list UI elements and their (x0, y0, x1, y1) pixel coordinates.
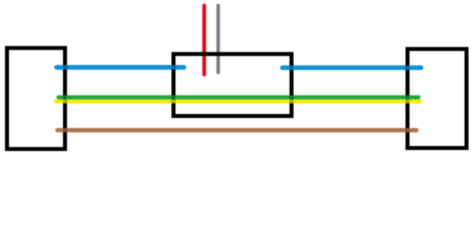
middle junction box (174, 54, 292, 116)
wire blue right segment (283, 65, 422, 70)
wire yellow (earth) (56, 99, 420, 103)
wire gray vertical (216, 6, 220, 73)
wire blue left segment (57, 65, 185, 70)
right connector box (408, 49, 467, 148)
left connector box (7, 48, 65, 149)
wire green (earth) (59, 95, 419, 99)
box outline blend overlay (wire crossing darkening) (7, 48, 467, 149)
wire brown (live) (58, 128, 417, 132)
wire red vertical (202, 6, 206, 75)
